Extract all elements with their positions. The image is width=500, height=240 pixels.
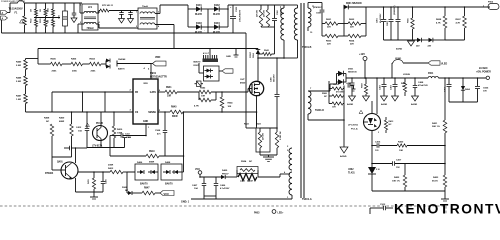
- filter choke LF1 700uH: [82, 4, 98, 30]
- svg-text:D406: D406: [137, 161, 143, 164]
- resistor R404 200k: [83, 63, 90, 65]
- svg-text:BAV70: BAV70: [140, 183, 148, 186]
- svg-text:NC: NC: [46, 121, 50, 123]
- svg-text:R924: R924: [241, 160, 247, 163]
- svg-text:C403: C403: [390, 84, 393, 90]
- svg-text:D901: D901: [348, 69, 354, 71]
- svg-text:P902: P902: [488, 2, 494, 4]
- svg-text:101: 101: [375, 150, 379, 152]
- svg-text:3: 3: [158, 12, 159, 14]
- AC sense wire to clamp node: [174, 48, 258, 50]
- gate resistor R943 4.7R NC: [198, 92, 200, 100]
- resistor R906a 1W: [52, 20, 55, 27]
- svg-text:GATE: GATE: [150, 91, 157, 94]
- svg-text:C908: C908: [155, 130, 161, 132]
- svg-text:PC1-B: PC1-B: [96, 123, 103, 125]
- AC input connector P901: [1, 11, 8, 15]
- svg-text:1: 1: [80, 5, 81, 7]
- gate resistor R941 10R: [158, 91, 165, 93]
- svg-text:VLED: VLED: [441, 64, 447, 66]
- svg-text:R431: R431: [432, 122, 438, 125]
- resistor R908 NC: [328, 89, 330, 97]
- Y-capacitor C901a: [72, 12, 77, 14]
- emitter wire: [75, 178, 77, 192]
- svg-text:70mH: 70mH: [142, 6, 148, 8]
- svg-text:22R: 22R: [327, 44, 331, 46]
- bottom AC rail: [2, 32, 247, 34]
- svg-text:AGND: AGND: [396, 48, 403, 51]
- svg-text:GND: GND: [143, 121, 148, 123]
- svg-text:GND: GND: [226, 56, 231, 58]
- svg-text:R405: R405: [51, 58, 57, 61]
- svg-text:U402: U402: [348, 168, 354, 171]
- svg-text:1M: 1M: [31, 9, 33, 12]
- resistor R608 4.7K: [444, 7, 446, 16]
- svg-text:BAV70: BAV70: [165, 183, 173, 186]
- svg-text:4N60: 4N60: [240, 81, 246, 84]
- svg-text:R448: R448: [16, 77, 22, 80]
- resistor R414 NC: [404, 78, 406, 82]
- ground bar: [444, 191, 446, 199]
- svg-text:C605: C605: [483, 88, 489, 90]
- svg-text:3: 3: [378, 132, 379, 134]
- svg-text:T9401-D: T9401-D: [315, 109, 324, 112]
- svg-text:R433: R433: [433, 176, 439, 179]
- svg-text:RL205: RL205: [213, 32, 221, 34]
- coupling cap C601 474/1KV: [308, 2, 322, 4]
- svg-text:C412: C412: [76, 126, 82, 129]
- svg-text:C906: C906: [277, 9, 279, 15]
- 12V filter cap C403 470uF/16V: [394, 78, 396, 84]
- svg-text:22R: 22R: [350, 27, 354, 29]
- dual diode D405 BAV70: [101, 63, 106, 65]
- svg-text:68.1K: 68.1K: [432, 180, 438, 182]
- svg-text:10K: 10K: [399, 150, 403, 152]
- 24V filter cap C802 472: [390, 7, 392, 19]
- bridge diode D102 RL205: [208, 8, 214, 10]
- gate pull-down resistor R944 10K: [221, 92, 223, 97]
- wire after fuse: [24, 2, 82, 4]
- snubber bottom wire: [261, 26, 275, 28]
- bridge diode D104 RL205: [208, 26, 214, 28]
- bulk capacitor C905 100uF/450V: [227, 5, 229, 9]
- svg-text:3: 3: [99, 11, 100, 13]
- svg-text:1W: 1W: [48, 20, 50, 23]
- svg-text:R406: R406: [71, 58, 77, 61]
- source ground bars: [260, 154, 277, 156]
- wire CS pin rail: [26, 111, 134, 113]
- svg-text:D104: D104: [214, 22, 220, 25]
- svg-text:24V: 24V: [428, 45, 432, 48]
- svg-text:22R: 22R: [327, 27, 331, 29]
- svg-text:7: 7: [310, 88, 312, 90]
- svg-text:2: 2: [130, 90, 132, 92]
- 24V ground and zeners D602 D603 24V: [384, 39, 418, 41]
- svg-text:R411: R411: [87, 178, 90, 184]
- svg-text:22R 5W: 22R 5W: [257, 10, 259, 17]
- output cap C404 68uF/16V: [448, 78, 450, 84]
- svg-text:LD7523AGTTR: LD7523AGTTR: [150, 76, 167, 79]
- svg-text:471: 471: [157, 133, 161, 136]
- svg-text:680R: 680R: [172, 116, 178, 118]
- X-capacitor CX1: [63, 11, 68, 26]
- svg-text:D103: D103: [196, 22, 202, 25]
- feedback ground wire: [372, 190, 445, 192]
- svg-text:C415: C415: [375, 141, 381, 144]
- svg-text:4.7uF/50V: 4.7uF/50V: [220, 187, 230, 190]
- svg-text:10R: 10R: [201, 96, 205, 98]
- svg-text:+12V: +12V: [359, 53, 365, 56]
- svg-text:D908: D908: [122, 187, 128, 189]
- snubber capacitor C906 102/2KV: [274, 5, 276, 18]
- ground Y-cap left: [71, 18, 77, 23]
- svg-text:R942: R942: [200, 87, 206, 90]
- svg-text:4: 4: [144, 67, 146, 70]
- 12V filter cap C408 470uF/16V: [414, 78, 416, 85]
- svg-text:470uF/16V: 470uF/16V: [418, 84, 429, 87]
- drain-source snubber cap C400 681/2KV: [276, 58, 278, 94]
- svg-text:2.0M: 2.0M: [16, 81, 21, 83]
- svg-text:R941: R941: [166, 86, 172, 89]
- svg-text:C416: C416: [346, 82, 352, 85]
- svg-text:2.10: 2.10: [376, 169, 380, 171]
- current sense resistor R923 0.33R: [260, 127, 277, 129]
- resistor R947: [142, 191, 155, 195]
- transistor emitter ground wire: [76, 191, 104, 193]
- svg-text:F601: F601: [428, 73, 434, 75]
- wire secondary to 12V diodes: [308, 90, 330, 92]
- svg-text:R922: R922: [244, 124, 250, 126]
- sense resistor R945 680R: [158, 111, 170, 113]
- AC sense wire: [38, 48, 174, 50]
- opto transistor wires: [371, 78, 373, 114]
- svg-text:KENOTRONTV: KENOTRONTV: [394, 202, 500, 216]
- svg-text:4: 4: [99, 21, 101, 24]
- resistor R411 47K: [93, 171, 95, 173]
- svg-text:FR107: FR107: [222, 173, 229, 175]
- svg-text:RL205: RL205: [195, 14, 203, 16]
- svg-text:4: 4: [148, 68, 150, 71]
- svg-text:T3.15A/250V: T3.15A/250V: [9, 8, 23, 11]
- svg-text:FB: FB: [135, 92, 138, 94]
- 24V filter cap C801 47uF/160V: [383, 7, 385, 19]
- resistor R919 680R: [110, 155, 146, 157]
- svg-text:R413: R413: [389, 120, 395, 123]
- cap C803 222/400V: [397, 7, 399, 19]
- svg-text:100uF/450V: 100uF/450V: [239, 9, 242, 22]
- output cap C605 10V: [477, 78, 479, 86]
- svg-text:AGND: AGND: [347, 103, 354, 106]
- svg-text:22R 5W: 22R 5W: [263, 133, 265, 140]
- svg-text:D102: D102: [214, 4, 220, 7]
- +12V terminal: [363, 57, 367, 61]
- svg-text:1M: 1M: [40, 9, 42, 12]
- svg-text:VCC: VCC: [195, 168, 200, 171]
- snubber resistor R903 22R 5W: [267, 5, 269, 10]
- svg-text:C801: C801: [377, 17, 379, 23]
- svg-text:R607: R607: [456, 19, 462, 21]
- damper resistor R604 22R: [344, 35, 348, 37]
- svg-text:RL205: RL205: [213, 14, 221, 16]
- svg-text:C406: C406: [105, 178, 108, 184]
- svg-text:R603: R603: [326, 41, 332, 43]
- svg-text:102/2KV: 102/2KV: [280, 7, 282, 15]
- svg-text:NC: NC: [249, 161, 253, 163]
- svg-text:F1: F1: [15, 12, 18, 15]
- svg-text:LTV-817A: LTV-817A: [348, 124, 358, 127]
- svg-text:2: 2: [136, 26, 137, 28]
- wire to transistor base: [51, 157, 53, 170]
- svg-text:(222/400V): (222/400V): [393, 5, 396, 15]
- wire diode to VDD node: [117, 63, 151, 65]
- VLED net tag: [403, 62, 428, 64]
- svg-text:1.0M: 1.0M: [16, 99, 21, 101]
- svg-text:L401: L401: [240, 180, 246, 183]
- output ground wire: [449, 101, 478, 103]
- svg-text:D604: D604: [465, 88, 471, 91]
- svg-text:4: 4: [158, 25, 160, 28]
- transformer 12V secondary winding T901-D: [308, 91, 311, 114]
- svg-text:T9401-B: T9401-B: [302, 46, 312, 49]
- primary return rail: [245, 33, 247, 128]
- 12V filter cap C402 470uF/16V: [383, 78, 385, 84]
- svg-text:A: A: [2, 17, 4, 20]
- svg-text:AGND: AGND: [411, 103, 418, 106]
- opto bias resistor R413 NC: [385, 117, 387, 120]
- svg-text:2A MAX: 2A MAX: [479, 67, 488, 70]
- secondary return to ground: [307, 114, 309, 120]
- cap C912 bottom: [370, 207, 383, 209]
- wire gate: [247, 89, 249, 93]
- VDD net flag: [150, 64, 152, 80]
- svg-text:C406: C406: [220, 184, 226, 187]
- svg-text:-: -: [204, 30, 205, 32]
- cap C406 104: [102, 171, 104, 173]
- ground bar under Q401: [93, 192, 95, 197]
- mid junction wire: [34, 17, 60, 19]
- cap C408b 4.7uF/50V: [215, 177, 217, 183]
- svg-text:VDD: VDD: [143, 83, 148, 85]
- svg-text:NC: NC: [125, 190, 129, 192]
- damper resistor R603 22R: [322, 35, 325, 37]
- svg-text:R410: R410: [117, 128, 123, 131]
- svg-text:R404: R404: [90, 58, 96, 61]
- svg-text:R947: R947: [144, 187, 150, 190]
- svg-text:BAV70: BAV70: [194, 61, 202, 64]
- svg-text:T9401-A: T9401-A: [302, 198, 312, 201]
- svg-text:R919: R919: [149, 151, 155, 153]
- svg-text:R412: R412: [108, 167, 114, 170]
- svg-text:2.0M: 2.0M: [16, 65, 21, 67]
- svg-text:106: 106: [128, 137, 132, 139]
- bridge diode D103 RL205: [187, 9, 189, 27]
- NTC thermistor NTC901 4D-11: [100, 9, 109, 12]
- jumper JP401: [391, 63, 393, 78]
- svg-text:4.7K: 4.7K: [436, 21, 441, 24]
- isolation boundary dashed line: [0, 205, 446, 207]
- svg-text:+ON_POWER: +ON_POWER: [476, 71, 491, 73]
- snubber resistor R902 22R 5W: [260, 5, 262, 10]
- clamp diode D904 FR207: [257, 49, 259, 50]
- resistor R905a 82A: [52, 9, 55, 16]
- svg-text:P903: P903: [254, 213, 260, 215]
- shunt regulator U402 TL431: [368, 167, 376, 174]
- wire VCC row: [200, 176, 221, 178]
- cap bottoms wire: [204, 195, 216, 197]
- svg-text:R913: R913: [333, 84, 339, 86]
- svg-text:10: 10: [310, 32, 313, 34]
- 12V rectifier diode D901 SB10100 parallel pair: [330, 83, 337, 85]
- svg-text:C408: C408: [418, 81, 424, 84]
- gate resistor R942 10R: [177, 91, 199, 93]
- svg-text:200k: 200k: [72, 71, 78, 73]
- resistor R903 1M: [44, 9, 47, 16]
- cap C411 106: [124, 112, 126, 133]
- compensation cap C415 101: [372, 145, 377, 147]
- resistor R913: [328, 81, 330, 89]
- divider resistor R432 10K 1%: [404, 164, 406, 176]
- svg-text:D904: D904: [252, 52, 255, 58]
- svg-text:R449: R449: [16, 61, 22, 64]
- Y-capacitor C903 and ground: [130, 11, 132, 13]
- svg-text:680R: 680R: [149, 162, 155, 164]
- svg-text:82A: 82A: [47, 8, 50, 12]
- svg-text:R945: R945: [171, 106, 177, 109]
- svg-text:RGD: RGD: [31, 18, 33, 23]
- svg-text:4.7R: 4.7R: [194, 105, 199, 108]
- wire drain: [258, 57, 298, 59]
- svg-text:680R: 680R: [59, 121, 65, 123]
- opto collector pull-up wire: [376, 78, 378, 114]
- svg-text:3: 3: [130, 110, 132, 112]
- wire N line down: [1, 20, 3, 33]
- svg-text:+: +: [230, 7, 232, 9]
- svg-text:C601: C601: [316, 13, 322, 15]
- damper grid verticals: [321, 24, 323, 37]
- 24V output connector P902: [488, 4, 499, 10]
- bleeder resistor R605: [412, 7, 414, 18]
- svg-text:TL431: TL431: [348, 171, 355, 174]
- svg-text:10V: 10V: [483, 91, 487, 93]
- resistor R924 NC parallel: [237, 167, 258, 174]
- cap C416 471/1KV: [343, 86, 345, 89]
- timing cap C908 471: [164, 111, 166, 113]
- svg-text:C400: C400: [270, 76, 273, 82]
- VCC net flag: [155, 192, 160, 194]
- damper resistor R601 22R: [322, 23, 325, 25]
- FB wire to IC: [52, 91, 133, 93]
- svg-text:681/2KV: 681/2KV: [274, 74, 276, 82]
- fuse F601: [428, 76, 439, 78]
- svg-text:10R: 10R: [167, 96, 172, 98]
- svg-text:D408: D408: [165, 161, 171, 164]
- collector resistor R412 200R: [78, 171, 110, 173]
- svg-text:RL205: RL205: [195, 32, 203, 34]
- VCC rectifier diode D909 FR107: [221, 175, 225, 179]
- svg-text:CX1: CX1: [59, 14, 61, 19]
- svg-text:R605: R605: [408, 17, 410, 23]
- IC GND pin wire: [145, 124, 147, 136]
- svg-text:3: 3: [287, 146, 289, 148]
- svg-text:4.7K: 4.7K: [456, 21, 461, 24]
- filter choke LF2 70mH: [138, 8, 157, 29]
- wire R network to opto: [343, 87, 345, 120]
- svg-text:R430: R430: [398, 141, 404, 144]
- svg-text:104: 104: [78, 129, 82, 132]
- resistor R904 RGD: [44, 20, 47, 27]
- svg-text:NTC 4D-11: NTC 4D-11: [102, 4, 114, 7]
- svg-text:47uF/160V: 47uF/160V: [379, 13, 382, 23]
- resistor R405 200k: [38, 63, 51, 65]
- svg-text:GND: 1: GND: 1: [181, 201, 190, 204]
- wire to aux winding: [258, 176, 280, 178]
- bridge diode D101 RL205: [187, 5, 189, 9]
- svg-text:POWER BOARD 715G2892: POWER BOARD 715G2892: [1, 0, 25, 3]
- svg-text:H12VA: H12VA: [403, 73, 410, 76]
- svg-text:VDD: VDD: [155, 56, 160, 59]
- svg-text:JP401: JP401: [395, 57, 402, 60]
- wire L line to fuse: [8, 12, 11, 14]
- svg-text:R908: R908: [322, 93, 328, 95]
- wire chain top: [26, 58, 39, 60]
- resistor R449 2.0M: [25, 59, 27, 61]
- svg-text:0.33R 1W: 0.33R 1W: [280, 131, 282, 140]
- svg-text:24V: 24V: [416, 45, 420, 48]
- small connector J901: [197, 81, 202, 87]
- svg-text:R447: R447: [16, 95, 22, 98]
- wire FB pin: [120, 91, 133, 93]
- svg-text:PC1-A: PC1-A: [351, 128, 358, 131]
- wire sense node down: [183, 111, 185, 113]
- svg-text:1: 1: [148, 127, 150, 129]
- svg-text:2: 2: [80, 22, 81, 24]
- svg-text:200R: 200R: [108, 165, 114, 167]
- svg-text:4 5 6 7: 4 5 6 7: [203, 52, 210, 55]
- ground bar GND net: [235, 48, 237, 55]
- svg-text:D409: D409: [222, 169, 228, 172]
- decoupling cap C417b 104: [199, 176, 201, 178]
- delay cap Cdel 106: [110, 135, 121, 137]
- svg-text:Q401: Q401: [57, 161, 63, 164]
- svg-text:C402: C402: [379, 84, 382, 90]
- svg-text:C912: C912: [380, 204, 386, 206]
- divider bottom wire: [52, 156, 72, 158]
- svg-text:D101: D101: [196, 4, 202, 7]
- 12V rail: [346, 77, 428, 79]
- svg-text:R609: R609: [362, 82, 364, 88]
- Y-capacitor C902 and ground: [121, 11, 123, 13]
- 12V filter cap C913: [351, 78, 353, 83]
- svg-text:22R: 22R: [350, 44, 354, 46]
- svg-text:R601: R601: [326, 19, 332, 21]
- svg-text:A: A: [2, 12, 4, 15]
- svg-text:LED+: LED+: [278, 213, 285, 215]
- svg-text:R944: R944: [228, 102, 234, 105]
- svg-text:C407: C407: [192, 184, 198, 187]
- resistor R409 680R: [71, 111, 73, 113]
- OUT net tag: [219, 70, 222, 72]
- resistor R901 1M: [35, 9, 38, 16]
- transformer primary winding section B: [294, 8, 297, 40]
- clamp resistor R941a 10R: [258, 53, 263, 55]
- svg-text:1N4148: 1N4148: [118, 58, 126, 61]
- svg-text:DT3904: DT3904: [45, 172, 54, 175]
- svg-text:1: 1: [366, 116, 367, 118]
- cap C412 104: [86, 111, 88, 113]
- aux diode D908 NC: [127, 171, 135, 173]
- svg-text:BAV70: BAV70: [118, 68, 125, 71]
- 24V rectifier diode D601 SB20100: [344, 5, 349, 10]
